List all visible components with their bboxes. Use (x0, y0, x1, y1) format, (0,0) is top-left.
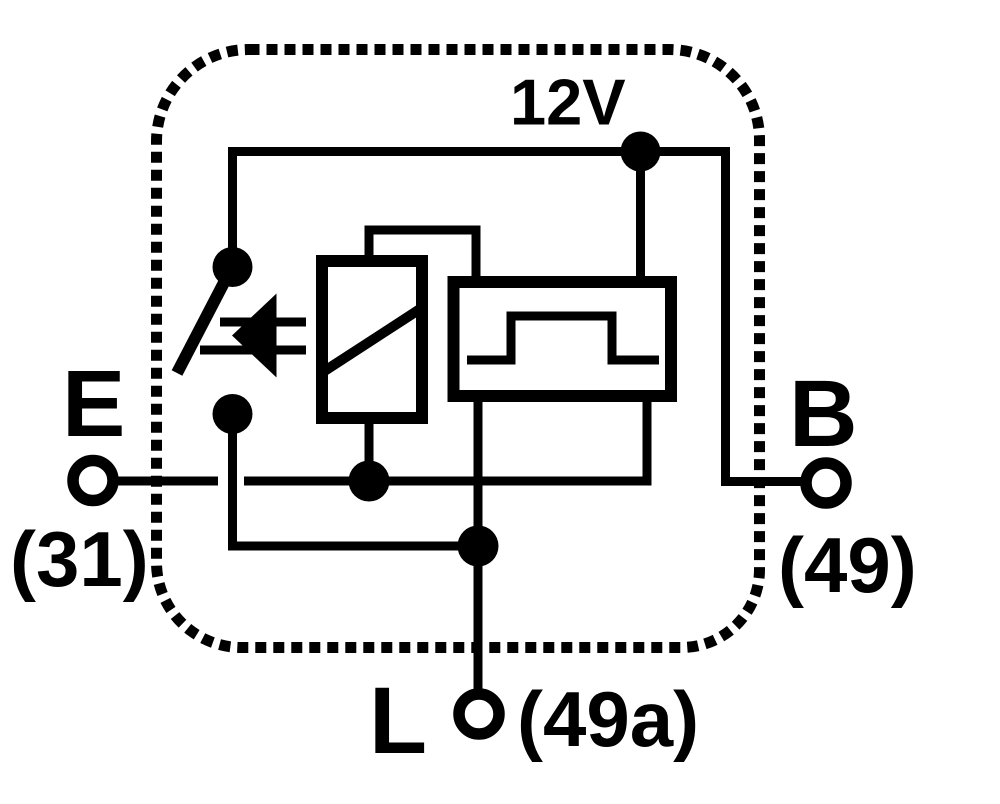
switch upper contact node (213, 247, 253, 287)
relay coil box (322, 261, 422, 418)
actuator arrow lower bar (200, 346, 306, 355)
switch blade (177, 271, 230, 373)
timer box (454, 282, 672, 396)
actuator arrow upper bar (220, 318, 306, 327)
svg-text:E: E (62, 351, 125, 457)
wire: terminal E lead (left of crossing break) (117, 477, 218, 486)
svg-text:12V: 12V (510, 66, 626, 139)
svg-text:(49a): (49a) (517, 675, 699, 763)
actuator arrowhead (232, 294, 277, 378)
node: 12V supply junction (621, 132, 661, 172)
relay coil diagonal (323, 309, 420, 372)
terminal L ring (459, 694, 499, 734)
terminal B ring (806, 463, 846, 503)
node: coil-to-E junction (349, 461, 390, 502)
svg-text:L: L (369, 668, 427, 774)
wire: coil bottom stub (365, 420, 374, 481)
enclosure dotted border (157, 50, 760, 648)
wire: timer box bottom down to terminal L (474, 400, 483, 690)
wire: coil top link to timer box top (369, 230, 476, 280)
switch lower contact node (213, 394, 253, 434)
terminal E ring (73, 461, 113, 501)
svg-text:(31): (31) (10, 515, 149, 603)
wire: terminal E lead (right of break) up to timer box bottom (244, 398, 647, 481)
svg-text:(49): (49) (778, 521, 917, 609)
pulse waveform (467, 316, 659, 360)
node: L junction (458, 526, 499, 567)
wire: 12V feed down to timer box (636, 152, 645, 281)
svg-text:B: B (789, 361, 858, 467)
wire: top rail from switch down-right to terminal B (233, 152, 802, 482)
wire: lower contact down and right to L junction (233, 414, 479, 546)
